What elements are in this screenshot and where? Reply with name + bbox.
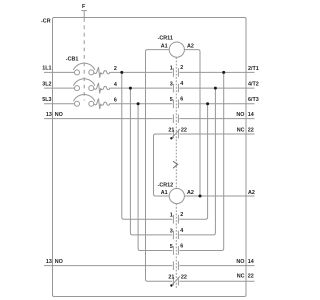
wire row 2 from CB1 to contact CR11 [112, 87, 173, 89]
junction dot row 1 to v1 [120, 71, 123, 74]
wire 13 NO row of CR11 left segment [44, 118, 172, 120]
wire coil CR11 A1 lead down to CR12 NC contact 21 [146, 50, 173, 282]
svg-text:3: 3 [170, 228, 173, 234]
svg-text:2: 2 [180, 65, 183, 71]
contact CR11 5-6 [173, 100, 178, 109]
svg-text:NO: NO [236, 259, 244, 265]
svg-text:2: 2 [180, 212, 183, 218]
contact CR12 NC 21-22 [170, 276, 180, 286]
junction dot row 3 to w3 [206, 102, 209, 105]
svg-text:3: 3 [170, 81, 173, 87]
svg-text:5L3: 5L3 [42, 97, 51, 103]
wire 5L3 input stub [44, 103, 75, 105]
thermal overload element pole 1 [94, 67, 112, 77]
contact CR12 1-2 [173, 215, 178, 224]
wire NO row of CR11 to terminal 14 [179, 118, 254, 120]
wire row 2 from contact CR11 to terminal 4/T2 [179, 87, 254, 89]
mechanical link dashed line CR12 [175, 204, 177, 288]
svg-text:13: 13 [46, 112, 52, 118]
svg-text:4: 4 [114, 82, 117, 88]
wire interlock coil CR12 A1 up to CR11 NC contact 21 [154, 134, 173, 196]
circuit breaker CB1 pole 2 [73, 79, 95, 91]
svg-text:NC: NC [237, 274, 245, 280]
wire crossover L2 to CR12 input 3 [130, 88, 172, 235]
svg-text:14: 14 [248, 259, 254, 265]
wire row 1 from CB1 to contact CR11 [112, 71, 173, 73]
contact CR11 NC 21-22 [170, 129, 180, 140]
contact CR11 NO 13-14 [173, 114, 178, 123]
svg-text:6: 6 [114, 98, 117, 104]
contactor coil CR11 [169, 42, 184, 57]
svg-text:14: 14 [248, 112, 254, 118]
svg-text:22: 22 [248, 128, 254, 134]
wire 1L1 input stub [44, 71, 75, 73]
svg-text:21: 21 [168, 275, 174, 281]
wire row 3 from CB1 to contact CR11 [112, 103, 173, 105]
svg-text:1L1: 1L1 [42, 66, 51, 72]
wire row 1 from contact CR11 to terminal 2/T1 [179, 71, 254, 73]
svg-text:2/T1: 2/T1 [248, 66, 259, 72]
svg-text:A2: A2 [187, 43, 194, 49]
wire row 3 from contact CR11 to terminal 6/T3 [179, 103, 254, 105]
junction dot coil A2 rail [199, 195, 202, 198]
svg-text:A1: A1 [161, 190, 168, 196]
enclosure box -CR border [53, 18, 247, 297]
svg-text:F: F [82, 4, 86, 10]
wire crossover L3 to CR12 input 5 [138, 104, 172, 251]
contactor coil CR12 [169, 188, 184, 203]
svg-text:A2: A2 [248, 190, 255, 196]
contact CR12 5-6 [173, 246, 178, 255]
svg-text:4: 4 [180, 228, 183, 234]
wire NO row of CR12 to terminal 14 [179, 265, 254, 267]
svg-text:6/T3: 6/T3 [248, 97, 259, 103]
junction dot row 2 to v2 [129, 87, 132, 90]
svg-text:22: 22 [248, 274, 254, 280]
contact CR11 3-4 [173, 84, 178, 93]
svg-text:6: 6 [180, 244, 183, 250]
svg-text:1: 1 [170, 66, 173, 72]
svg-text:-CR12: -CR12 [158, 182, 174, 188]
junction dot row 1 to w1 [222, 71, 225, 74]
wire 3L2 input stub [44, 87, 75, 89]
mechanical interlock dashed line between CR11 and CR12 [175, 140, 177, 189]
svg-text:A2: A2 [187, 190, 194, 196]
svg-text:A1: A1 [161, 43, 168, 49]
svg-text:22: 22 [181, 275, 187, 281]
circuit breaker CB1 pole 3 [73, 95, 95, 107]
svg-text:NO: NO [55, 112, 63, 118]
wire coil CR11 A2 lead [184, 50, 200, 196]
contact CR11 1-2 [173, 68, 178, 77]
svg-text:-CR: -CR [41, 19, 51, 25]
svg-text:-CB1: -CB1 [66, 56, 79, 62]
circuit breaker CB1 pole 1 [73, 63, 95, 75]
svg-text:1: 1 [170, 213, 173, 219]
junction dot row 3 to v3 [137, 102, 140, 105]
mechanical interlock chevron [173, 161, 178, 168]
svg-text:NO: NO [236, 112, 244, 118]
svg-text:6: 6 [180, 97, 183, 103]
wire CR12 output 6 to row 1 [179, 72, 223, 250]
thermal overload element pole 2 [94, 83, 112, 93]
svg-text:NO: NO [55, 259, 63, 265]
wire CR12 output 4 to row 2 [179, 88, 215, 235]
svg-text:5: 5 [170, 97, 173, 103]
wire NC row of CR12 to terminal 22 [179, 280, 254, 282]
svg-text:-CR11: -CR11 [158, 36, 173, 42]
wire crossover L1 to CR12 input 1 [122, 72, 173, 219]
trip linkage dashed line of CB1 [83, 18, 85, 101]
svg-text:NC: NC [237, 128, 245, 134]
svg-text:5: 5 [170, 244, 173, 250]
svg-text:13: 13 [46, 259, 52, 265]
wire CR12 output 2 to row 3 [179, 104, 207, 219]
wire coil CR12 A2 to terminal A2 [184, 195, 254, 197]
svg-text:21: 21 [168, 127, 174, 133]
wire 13 NO row of CR12 left segment [44, 265, 172, 267]
mechanical link dashed line CR11 [175, 57, 177, 139]
trip flag F symbol [81, 11, 87, 18]
junction dot row 2 to w2 [214, 87, 217, 90]
svg-text:2: 2 [114, 66, 117, 72]
contact CR12 3-4 [173, 231, 178, 240]
contact CR12 NO 13-14 [173, 261, 178, 270]
svg-text:4: 4 [180, 81, 183, 87]
svg-text:4/T2: 4/T2 [248, 82, 259, 88]
thermal overload element pole 3 [94, 99, 112, 109]
svg-text:3L2: 3L2 [42, 81, 51, 87]
svg-text:22: 22 [181, 127, 187, 133]
wire NC row of CR11 to terminal 22 [179, 133, 254, 135]
